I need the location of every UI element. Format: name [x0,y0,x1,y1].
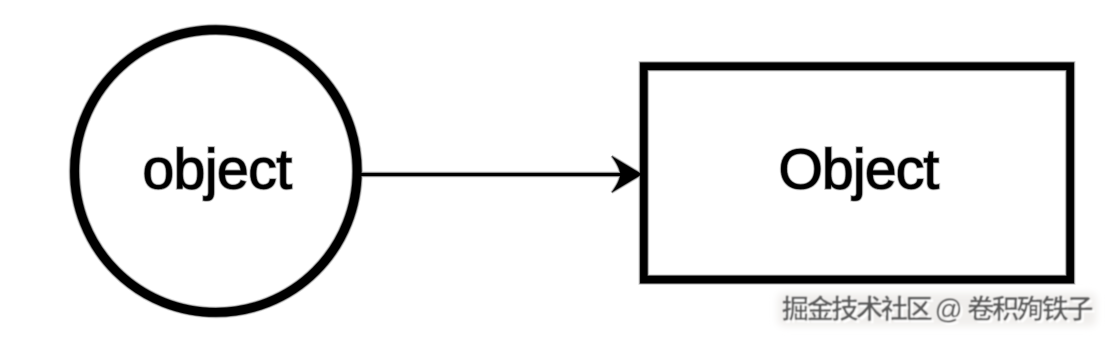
rectangle node: Object [644,66,1070,279]
rectangle node fill [644,66,1070,279]
soft halos (edge softness, outer ring) [75,30,1071,313]
watermark backdrop haze [778,293,1096,326]
arrowhead [612,156,642,192]
circle node: object [75,30,358,313]
svg-text:object: object [142,138,292,202]
watermark (embossed) [783,294,1095,327]
circle node fill [75,30,358,313]
svg-text:Object: Object [779,138,940,202]
soft halos (edge softness, inner ring) [75,30,1071,313]
wire: arrow shaft [361,173,624,176]
